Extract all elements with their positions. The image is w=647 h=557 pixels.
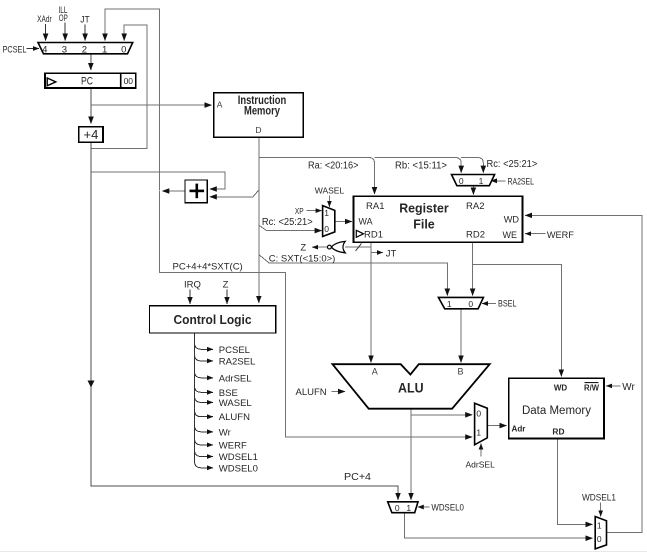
svg-text:Data Memory: Data Memory — [522, 405, 591, 417]
svg-text:1: 1 — [102, 44, 107, 55]
svg-text:0: 0 — [324, 224, 329, 234]
alu ALU — [333, 364, 490, 409]
label Rc 25:21 — [487, 159, 538, 170]
wire BSEL select arrow — [482, 303, 496, 305]
label WDSEL1 — [582, 493, 616, 504]
label C: SXT(15:0) — [269, 254, 336, 265]
svg-text:WD: WD — [504, 214, 519, 225]
wire Data Memory RD to WDSEL1 input1 — [558, 439, 593, 525]
mux WDSEL0 — [388, 502, 418, 513]
svg-text:Wr: Wr — [622, 382, 635, 393]
label PC+4 — [344, 472, 371, 483]
label BSE output — [219, 388, 238, 399]
label ALUFN output — [219, 412, 250, 423]
svg-text:WDSEL1: WDSEL1 — [582, 493, 616, 504]
svg-text:OP: OP — [59, 13, 68, 23]
wire PCSEL select arrow — [27, 48, 40, 50]
label WERF — [547, 230, 574, 241]
wire PCSEL mux output to PC — [90, 54, 92, 70]
svg-text:+4: +4 — [83, 127, 98, 142]
label WASEL output — [219, 398, 252, 409]
wire XP to WASEL input1 — [307, 210, 322, 212]
svg-text:PC: PC — [81, 76, 93, 88]
svg-text:0: 0 — [121, 44, 126, 55]
label Rb 15:11 — [395, 160, 447, 171]
wire PCSEL mux input1 feedback from branch adder — [105, 9, 160, 191]
svg-text:WA: WA — [359, 216, 374, 227]
register PC — [45, 73, 136, 88]
svg-text:Z: Z — [300, 243, 306, 254]
svg-text:RA2SEL: RA2SEL — [219, 356, 255, 367]
svg-text:AdrSEL: AdrSEL — [466, 459, 496, 469]
wire XAdr arrow into PCSEL input4 — [45, 24, 47, 41]
wire WDSEL0 select arrow — [418, 506, 430, 508]
svg-text:WDSEL0: WDSEL0 — [219, 463, 258, 474]
svg-text:Z: Z — [223, 280, 229, 291]
wire AdrSEL output to Data Memory Adr — [487, 425, 506, 427]
wire WDSEL1 select arrow — [600, 503, 602, 517]
label WASEL — [315, 186, 345, 196]
label RA2SEL output — [219, 356, 255, 367]
wire PC output to +4 — [90, 88, 92, 123]
wire RA2SEL output to RA2 — [472, 186, 474, 195]
wire hook RA2SEL — [195, 355, 213, 361]
label ALUFN — [296, 387, 327, 398]
wire hook PCSEL — [195, 343, 213, 349]
svg-text:WE: WE — [503, 230, 518, 241]
svg-text:00: 00 — [124, 76, 134, 86]
label PCSEL — [3, 44, 27, 55]
svg-text:1: 1 — [324, 208, 329, 218]
wire hook WDSEL0 — [195, 462, 213, 468]
wire WASEL select arrow — [328, 196, 330, 207]
label ILL OP — [59, 5, 68, 23]
svg-text:Rc: <25:21>: Rc: <25:21> — [487, 159, 538, 170]
wire hook BSE — [195, 386, 213, 392]
wire WDSEL1 output up to Register File WD — [525, 215, 642, 532]
svg-text:1: 1 — [447, 299, 452, 309]
wire PCSEL mux input0 feedback PC+4 — [91, 25, 147, 149]
svg-text:WERF: WERF — [219, 440, 247, 451]
wire RD2 branch to Data Memory WD — [473, 265, 562, 377]
svg-text:PCSEL: PCSEL — [219, 345, 250, 356]
wire PC to Instruction Memory A — [91, 104, 212, 106]
label WDSEL0 — [431, 503, 464, 514]
svg-text:0: 0 — [476, 409, 481, 419]
label RA2SEL — [508, 176, 535, 186]
wire C SXT field to BSEL input1 — [259, 255, 448, 296]
svg-text:Register: Register — [399, 202, 449, 216]
wire ALUFN arrow into ALU — [332, 391, 346, 393]
svg-text:Adr: Adr — [512, 424, 526, 433]
wire PC+4 net down to WDSEL0 input0 — [88, 143, 399, 500]
mux RA2SEL — [452, 175, 495, 187]
svg-text:RD1: RD1 — [364, 230, 383, 241]
svg-text:D: D — [255, 125, 261, 135]
wire Z gate output — [312, 246, 327, 248]
label BSEL — [498, 299, 517, 309]
wire WASEL output to WA — [335, 221, 352, 223]
mux WDSEL1 — [595, 517, 606, 549]
label AdrSEL output — [219, 373, 252, 384]
wire WDSEL0 output to WDSEL1 input0 — [404, 513, 592, 538]
wire hook ALUFN — [195, 411, 213, 417]
label WDSEL0 output — [219, 463, 258, 474]
svg-text:WASEL: WASEL — [219, 398, 252, 409]
wire ALU output down to WDSEL0 input1 — [410, 409, 412, 500]
wire adder output PC+4+4*SXT(C) — [162, 190, 185, 192]
label PCSEL output — [219, 345, 250, 356]
svg-text:A: A — [217, 99, 223, 109]
label WERF output — [219, 440, 247, 451]
wire PC+4+4*SXT(C) net to AdrSEL input1 — [160, 191, 473, 437]
wire hook WDSEL1 — [195, 451, 213, 457]
wire BSEL output to ALU B — [460, 309, 462, 363]
svg-text:Control Logic: Control Logic — [174, 312, 252, 327]
wire Control Logic output trunk — [194, 333, 196, 462]
label PC+4+4*SXT(C) — [173, 261, 243, 272]
label AdrSEL — [466, 459, 496, 469]
wire RD2 to BSEL input0 — [472, 242, 474, 295]
wire RA2SEL select arrow — [491, 180, 506, 182]
adder +4 — [79, 127, 103, 143]
label XP — [295, 206, 304, 216]
wire ILL OP arrow into PCSEL input3 — [64, 23, 66, 41]
wire Ra field to RA1 — [259, 158, 375, 195]
wire hook WERF — [195, 439, 213, 445]
svg-text:RD: RD — [552, 427, 564, 436]
svg-text:C: SXT(<15:0>): C: SXT(<15:0>) — [269, 254, 336, 265]
wire RD1 to ALU A — [370, 242, 372, 362]
branch adder + — [185, 180, 207, 203]
svg-text:RA2: RA2 — [466, 201, 484, 212]
svg-text:ALUFN: ALUFN — [219, 412, 250, 423]
register file Register File — [354, 196, 523, 242]
wire JT arrow into PCSEL input2 — [84, 25, 86, 41]
control logic box — [149, 306, 275, 333]
wire ALU output branch to AdrSEL input0 — [411, 414, 472, 416]
svg-text:Wr: Wr — [219, 427, 231, 438]
label Z above control logic — [223, 280, 229, 291]
label JT right — [386, 248, 397, 259]
svg-text:4: 4 — [42, 44, 47, 55]
wire WERF to WE — [525, 233, 545, 235]
svg-text:0: 0 — [459, 176, 464, 186]
svg-text:RA1: RA1 — [366, 201, 384, 212]
wire Rb field to RA2SEL input0 — [375, 158, 462, 173]
wire Z arrow into Control Logic — [226, 290, 228, 304]
svg-text:AdrSEL: AdrSEL — [219, 373, 252, 384]
svg-text:File: File — [413, 218, 435, 232]
svg-text:3: 3 — [62, 44, 67, 55]
wire RD1 tap to Z gate — [345, 243, 371, 251]
label Rc 25:21 left — [262, 217, 313, 228]
svg-text:1: 1 — [406, 503, 411, 513]
svg-text:XAdr: XAdr — [37, 14, 52, 24]
svg-text:RA2SEL: RA2SEL — [508, 176, 535, 186]
wire IRQ arrow into Control Logic — [189, 290, 191, 304]
svg-text:WERF: WERF — [547, 230, 574, 241]
wire Wr to Data Memory R/W — [606, 385, 620, 387]
mux PCSEL — [38, 43, 133, 56]
svg-text:WDSEL0: WDSEL0 — [431, 503, 464, 514]
wire JT tap from RD1 — [371, 252, 383, 254]
gate Z nor — [328, 241, 346, 252]
svg-text:WD: WD — [554, 384, 568, 393]
faint scan line bottom — [0, 551, 647, 553]
label WDSEL1 output — [219, 452, 258, 463]
svg-text:BSEL: BSEL — [498, 299, 517, 309]
svg-text:2: 2 — [82, 44, 87, 55]
wire adder bottom input 4*SXT(C) — [210, 190, 259, 197]
memory Instruction Memory — [214, 93, 304, 138]
svg-text:PC+4: PC+4 — [344, 472, 371, 483]
svg-text:0: 0 — [468, 299, 473, 309]
wire hook Wr — [195, 426, 213, 432]
svg-text:XP: XP — [295, 206, 304, 216]
svg-text:ALUFN: ALUFN — [296, 387, 327, 398]
wire instruction D bus down to Control Logic — [258, 137, 260, 302]
label IRQ — [184, 280, 201, 291]
svg-text:WASEL: WASEL — [315, 186, 345, 196]
svg-text:1: 1 — [597, 520, 602, 530]
svg-text:Memory: Memory — [244, 105, 280, 117]
svg-text:0: 0 — [597, 534, 602, 544]
mux WASEL — [323, 206, 335, 237]
svg-text:0: 0 — [395, 503, 400, 513]
label Wr — [622, 382, 635, 393]
label XAdr — [37, 14, 52, 24]
wire PC+4 branch to adder top input — [91, 172, 225, 189]
mux BSEL — [438, 297, 483, 309]
svg-text:R/W: R/W — [584, 384, 599, 393]
mux AdrSEL — [475, 403, 488, 445]
svg-text:Rc: <25:21>: Rc: <25:21> — [262, 217, 313, 228]
wire hook WASEL — [195, 396, 213, 402]
memory Data Memory — [509, 378, 604, 438]
svg-text:ALU: ALU — [398, 380, 424, 395]
svg-text:JT: JT — [80, 14, 90, 24]
svg-text:1: 1 — [479, 176, 484, 186]
label Ra 20:16 — [308, 160, 359, 171]
wire hook AdrSEL — [195, 372, 213, 378]
svg-text:IRQ: IRQ — [184, 280, 201, 291]
svg-text:JT: JT — [386, 248, 397, 259]
label Wr output — [219, 427, 231, 438]
label Z left — [300, 243, 306, 254]
svg-text:RD2: RD2 — [466, 230, 485, 241]
svg-text:A: A — [372, 366, 378, 376]
svg-text:PCSEL: PCSEL — [3, 44, 27, 55]
wire Rc field to WASEL input0 — [259, 225, 322, 231]
svg-text:Ra: <20:16>: Ra: <20:16> — [308, 160, 359, 171]
svg-text:WDSEL1: WDSEL1 — [219, 452, 258, 463]
svg-text:B: B — [457, 366, 463, 376]
svg-text:1: 1 — [476, 428, 481, 438]
label JT — [80, 14, 90, 24]
svg-text:PC+4+4*SXT(C): PC+4+4*SXT(C) — [173, 261, 243, 272]
svg-text:Rb: <15:11>: Rb: <15:11> — [395, 160, 447, 171]
wire AdrSEL select arrow — [480, 444, 482, 457]
wire Rc field to RA2SEL input1 — [461, 158, 483, 173]
